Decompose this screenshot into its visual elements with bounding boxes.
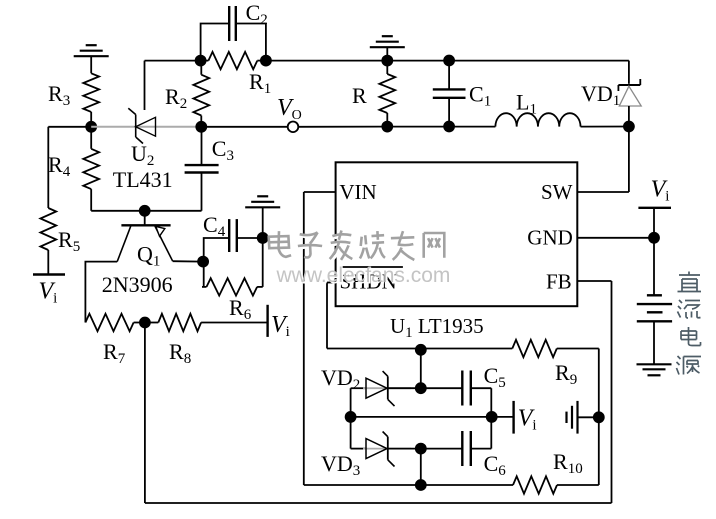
svg-text:www.elecfans.com: www.elecfans.com — [276, 264, 451, 287]
pin SW — [541, 180, 629, 204]
wire top to node N3 — [145, 60, 201, 62]
label Vi top-right — [651, 177, 670, 205]
svg-text:C1: C1 — [469, 82, 491, 110]
resistor R — [379, 61, 395, 127]
wire anode rail — [351, 416, 514, 418]
ground G5 — [637, 364, 672, 375]
diode VD3 — [351, 432, 421, 467]
pin FB — [546, 270, 612, 294]
svg-text:C2: C2 — [246, 0, 268, 28]
node N10 — [381, 121, 393, 133]
terminal Vi bottom-left — [33, 273, 65, 275]
node N5 — [139, 205, 151, 217]
svg-text:R5: R5 — [58, 227, 80, 255]
svg-text:VD3: VD3 — [321, 451, 360, 479]
resistor R6 — [202, 238, 263, 296]
wire N1-N2 gray — [91, 126, 201, 128]
wire N19 down — [420, 449, 422, 485]
label R5 — [58, 227, 80, 255]
diode VD1 — [618, 61, 641, 192]
wire L1 to N13 — [581, 126, 629, 128]
resistor R9 — [512, 340, 599, 357]
node N12 — [443, 121, 455, 133]
label VD1 — [581, 81, 620, 109]
label DC power (Chinese) — [677, 272, 702, 375]
node N8 — [139, 317, 151, 329]
node N7 — [257, 232, 269, 244]
svg-text:R1: R1 — [249, 69, 271, 97]
node N18 — [593, 411, 605, 423]
node N19 — [415, 443, 427, 455]
inductor L1 — [495, 113, 580, 126]
svg-text:C6: C6 — [484, 451, 507, 479]
wire top rail — [266, 60, 629, 62]
wire VD2 anode down — [350, 388, 352, 417]
svg-text:R8: R8 — [169, 339, 191, 367]
label L1 — [516, 90, 537, 118]
battery DC source — [637, 238, 672, 364]
svg-text:C4: C4 — [203, 212, 226, 240]
resistor R2 — [193, 61, 209, 127]
node N1 — [85, 121, 97, 133]
svg-text:VO: VO — [277, 95, 302, 123]
label R6 — [229, 295, 252, 323]
capacitor C6 — [421, 417, 492, 466]
transistor Q1 — [85, 211, 203, 323]
svg-text:Vi: Vi — [271, 312, 290, 340]
ground G2 — [370, 36, 405, 60]
wire N1 to left column — [48, 127, 91, 208]
svg-text:Q1: Q1 — [137, 242, 160, 270]
wire bottom loop — [91, 210, 201, 212]
wire SHDN down — [327, 283, 512, 349]
svg-text:R3: R3 — [48, 81, 70, 109]
svg-text:Vi: Vi — [651, 177, 670, 205]
label 2N3906 — [102, 272, 173, 297]
resistor R10 — [513, 476, 599, 493]
label C6 — [484, 451, 507, 479]
ground G3 — [245, 196, 280, 238]
node N3 — [195, 55, 207, 67]
terminal Vi mid — [512, 401, 514, 434]
label TL431 — [113, 167, 173, 192]
node Vo terminal — [288, 122, 299, 133]
resistor R1 — [201, 52, 266, 69]
node N11 — [443, 55, 455, 67]
resistor R3 — [83, 73, 99, 127]
capacitor C2 — [201, 6, 266, 61]
pin VIN — [304, 180, 377, 204]
label R4 — [48, 152, 71, 180]
label Vi at R8 — [271, 312, 290, 340]
svg-text:R7: R7 — [103, 339, 126, 367]
svg-text:R: R — [352, 83, 367, 108]
svg-text:SW: SW — [541, 180, 573, 204]
resistor R8 — [145, 314, 267, 331]
svg-text:R9: R9 — [555, 360, 577, 388]
label R9 — [555, 360, 577, 388]
wire VIN down + bottom — [304, 192, 513, 485]
capacitor C3 — [185, 127, 219, 211]
node N14 — [415, 344, 427, 356]
ground G1 — [74, 45, 109, 73]
label C2 — [246, 0, 268, 28]
svg-text:R4: R4 — [48, 152, 71, 180]
label R10 — [553, 449, 583, 477]
regulator U2 TL431 symbol — [128, 61, 155, 144]
label U2 — [131, 141, 154, 169]
node N15 — [415, 382, 427, 394]
svg-text:Vi: Vi — [39, 279, 58, 307]
label VD3 — [321, 451, 360, 479]
svg-text:GND: GND — [527, 226, 573, 250]
label Vo — [277, 95, 302, 123]
label Q1 — [137, 242, 160, 270]
label R8 — [169, 339, 191, 367]
svg-text:R10: R10 — [553, 449, 583, 477]
wire FB loop — [145, 281, 612, 503]
label R — [352, 83, 367, 108]
resistor R4 — [83, 127, 99, 211]
capacitor C1 — [433, 61, 466, 127]
pin GND — [527, 226, 654, 250]
svg-text:VIN: VIN — [339, 180, 376, 204]
label C4 — [203, 212, 226, 240]
node N16 — [345, 411, 357, 423]
IC U1 LT1935 box — [336, 162, 578, 306]
label C3 — [212, 136, 234, 164]
terminal Vi top-right — [638, 208, 671, 238]
svg-text:Vi: Vi — [518, 406, 537, 434]
label U1 LT1935 — [390, 314, 484, 341]
wire Vo to N10 — [298, 126, 387, 128]
resistor R5 — [40, 208, 56, 274]
node N2 — [195, 121, 207, 133]
node N17 — [486, 411, 498, 423]
svg-text:2N3906: 2N3906 — [102, 272, 173, 297]
watermark line1 — [269, 231, 447, 262]
node N4 — [260, 55, 272, 67]
label R7 — [103, 339, 126, 367]
svg-text:FB: FB — [546, 270, 572, 294]
wire VD3 anode up — [350, 417, 352, 449]
capacitor C4 — [204, 219, 263, 262]
label VD2 — [321, 365, 360, 393]
label R1 — [249, 69, 271, 97]
terminal Vi at R8 — [266, 305, 268, 337]
wire R10 right column — [598, 349, 600, 486]
svg-text:C5: C5 — [484, 363, 506, 391]
svg-text:L1: L1 — [516, 90, 537, 118]
capacitor C5 — [421, 371, 492, 417]
svg-text:U1 LT1935: U1 LT1935 — [390, 314, 484, 341]
svg-text:VD2: VD2 — [321, 365, 360, 393]
watermark line2 — [276, 264, 452, 289]
node N9 — [381, 55, 393, 67]
svg-text:VD1: VD1 — [581, 81, 620, 109]
node N13 — [623, 121, 635, 133]
ground G4 rotated — [567, 401, 599, 434]
wire N2 to Vo — [201, 126, 287, 128]
svg-text:R6: R6 — [229, 295, 252, 323]
svg-text:U2: U2 — [131, 141, 154, 169]
label C1 — [469, 82, 491, 110]
diode VD2 — [351, 371, 421, 406]
svg-text:R2: R2 — [165, 84, 187, 112]
wire mid rail — [387, 126, 495, 128]
label R3 — [48, 81, 70, 109]
label Vi bottom-left — [39, 279, 58, 307]
node N6 — [197, 256, 209, 268]
node N21 — [648, 232, 660, 244]
pin SHDN — [327, 267, 403, 294]
label C5 — [484, 363, 506, 391]
wire N14 down — [420, 350, 422, 388]
node N20 — [415, 479, 427, 491]
svg-text:TL431: TL431 — [113, 167, 173, 192]
label Vi mid — [518, 406, 537, 434]
resistor R7 — [85, 314, 144, 331]
svg-text:C3: C3 — [212, 136, 234, 164]
label R2 — [165, 84, 187, 112]
